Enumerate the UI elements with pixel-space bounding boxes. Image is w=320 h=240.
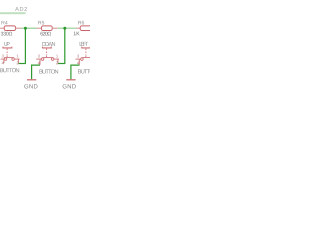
wire S3 pin 4 to GND2: [71, 65, 80, 79]
pushbutton S2 pin number 1: [56, 55, 58, 58]
pushbutton S3 left contact circle: [81, 58, 84, 61]
net label AD2: [15, 7, 27, 11]
junction dot node2: [63, 27, 66, 30]
pushbutton S3 part label BUTTON (clipped): [78, 69, 97, 73]
pushbutton S1 right contact circle: [12, 58, 15, 61]
pushbutton S2 cap bar: [43, 47, 52, 48]
wire rail node1 vertical: [24, 28, 26, 63]
pushbutton S3 actuator dashed line: [85, 49, 87, 55]
pushbutton S3 bridge bar: [82, 57, 93, 59]
ground GND2 label: [63, 84, 76, 88]
resistor R5 value 620ohm: [40, 32, 51, 36]
pushbutton S3 actuator nub: [85, 55, 87, 57]
pushbutton S3 pin 3 lead: [76, 58, 81, 60]
pushbutton S2 pin 2 lead vertical: [57, 59, 59, 63]
wire arm node2 to S2 pin 2: [58, 63, 66, 65]
pushbutton S2 bridge bar: [42, 57, 53, 59]
ground GND1 label: [24, 84, 37, 88]
pushbutton S2 left contact circle: [41, 58, 44, 61]
pushbutton S1 pin 3 lead (clipped at left edge): [1, 58, 4, 60]
wire arm node1 to S1 pin 2: [18, 63, 26, 65]
resistor R5 left lead: [37, 27, 42, 29]
resistor R5 right lead: [52, 27, 58, 29]
resistor R4 left lead: [0, 27, 5, 29]
resistor R6 ref label: [78, 21, 84, 25]
resistor R6 body (clipped at right edge): [80, 26, 91, 31]
pushbutton S2 pin number 3: [38, 55, 40, 58]
wire rail node2 vertical: [64, 28, 66, 63]
pushbutton S2 actuator dashed line: [46, 49, 48, 55]
resistor R5 body: [42, 26, 53, 31]
resistor R6 left lead: [76, 27, 80, 29]
pushbutton S1 left contact circle: [4, 58, 7, 61]
resistor R5 ref label: [38, 21, 44, 25]
pushbutton S1 part label BUTTON: [0, 68, 19, 72]
pushbutton S1 pin number 3: [2, 55, 4, 58]
pushbutton S1 pin 1 lead: [14, 58, 19, 60]
pushbutton S1 cap bar: [3, 47, 12, 48]
pushbutton S1 pin number 2: [17, 61, 19, 64]
pushbutton S2 pin 3 lead: [36, 58, 41, 60]
wire S2 pin 4 to GND1: [32, 65, 40, 79]
pushbutton S2 actuator nub: [46, 55, 48, 57]
wire net AD2 stub (pale): [0, 12, 26, 14]
pushbutton S3 cap bar: [82, 47, 91, 48]
pushbutton S2 pin number 2: [56, 61, 58, 64]
pushbutton S3 name label LEFT: [80, 42, 88, 46]
pushbutton S1 pin number 4: [2, 61, 4, 64]
wire node1 horizontal (pale): [21, 27, 36, 29]
pushbutton S2 part label BUTTON: [39, 69, 58, 73]
resistor R4 value 330ohm: [1, 32, 12, 36]
pushbutton S2 pin 1 lead: [54, 58, 59, 60]
junction dot node1: [24, 27, 27, 30]
pushbutton S3 pin number 4: [77, 61, 79, 64]
resistor R4 body: [4, 26, 15, 31]
wire node2 horizontal (pale): [58, 27, 77, 29]
pushbutton S1 pin 2 lead vertical: [17, 59, 19, 63]
pushbutton S1 bridge bar: [4, 57, 14, 59]
resistor R6 value 1K: [74, 32, 80, 36]
pushbutton S1 name label UP: [4, 42, 9, 46]
resistor R4 right lead: [16, 27, 22, 29]
ground GND2 bar: [66, 79, 75, 81]
pushbutton S1 actuator dashed line: [6, 49, 8, 55]
pushbutton S2 right contact circle: [51, 58, 54, 61]
pushbutton S1 pin 4 lead vertical: [3, 60, 5, 64]
pushbutton S3 pin 4 lead vertical: [78, 60, 80, 65]
pushbutton S1 actuator nub: [6, 55, 8, 57]
pushbutton S2 pin 4 lead vertical: [39, 60, 41, 65]
pushbutton S2 pin number 4: [38, 61, 40, 64]
pushbutton S3 pin number 3: [77, 55, 79, 58]
ground GND1 bar: [27, 79, 36, 81]
pushbutton S2 name label DOWN: [42, 42, 55, 46]
resistor R4 ref label: [2, 21, 8, 25]
pushbutton S1 pin number 1: [17, 55, 19, 58]
